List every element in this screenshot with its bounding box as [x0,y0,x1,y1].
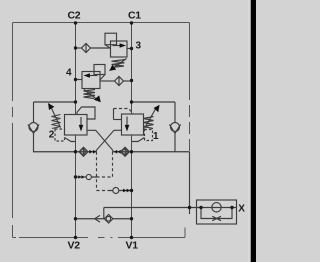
valve3 internal arrow [113,45,121,47]
wire left check branch horizontal [34,101,76,103]
row B seat triangles [78,175,81,179]
dashed pilot horizontal row B [97,176,113,178]
node C1/valve3 [130,47,133,50]
row A left pilot-check diamond [79,147,88,156]
valve4 spring [84,90,96,99]
svg-text:1: 1 [153,131,159,142]
frame right edge solid upper [189,23,191,89]
wire right check valve down [174,133,176,152]
X-port bypass orifice [212,216,221,220]
node C2 top [74,21,77,24]
svg-text:3: 3 [136,41,142,52]
node X-port box left [199,206,202,209]
node V2 bottom [74,236,77,239]
X-port box [197,200,237,224]
valve4 internal arrow [89,75,98,77]
valve1 spring [144,117,154,129]
row B orifice ball [86,174,91,179]
valve1 drain dashed box [145,130,153,141]
X-port plug ball [212,203,221,212]
svg-text:C2: C2 [68,10,81,22]
node X-port box right [230,206,233,209]
wire diamond to valve3 body [91,47,111,49]
pilot cross line left (valve2 to right junction) [87,130,113,151]
valve1 internal arrow [126,117,128,127]
node V1 bottom [130,236,133,239]
wire valve3 outlet to C1 [127,48,132,50]
wire left check valve down [34,133,76,152]
node C1 top [130,21,133,24]
valve3 adjust arrow [113,59,127,69]
counterbalance valve U1 body [122,114,144,135]
row A wire right [113,151,132,153]
valve2 adjust arrow [52,108,61,127]
valve3 pilot box [105,33,117,45]
X-port through wire [197,207,237,209]
row C orifice ball [113,188,119,194]
valve2 drain wire [65,138,76,142]
node V2/row D [74,217,77,220]
relief valve U3 body [111,41,128,57]
valve1 adjust arrow [145,108,157,129]
svg-text:X: X [238,204,245,215]
left check valve ball [29,123,38,132]
node boundary/X line [188,206,191,209]
valve1 pilot box [113,109,115,120]
stub below boundary node [189,208,191,215]
row D chevron seat [95,215,100,222]
row C wire [111,190,132,192]
wire diamond to C1 [124,80,132,82]
right check valve ball [171,123,180,132]
X pilot line horizontal [104,207,197,209]
row D wire [76,218,132,220]
wire right check branch horizontal [132,101,176,103]
row C seat triangles [123,189,126,193]
left check valve seat [28,124,39,133]
row B wire from V2 [76,176,97,178]
node V1/row D [130,217,133,220]
row A wire left [76,151,97,153]
valve1 drain wire [132,138,145,142]
svg-text:C1: C1 [128,10,141,22]
frame bottom-right hook [184,228,186,238]
counterbalance valve U2 body [65,115,88,136]
valve4 adjust arrow [84,90,97,100]
row A left seat triangles [89,150,92,154]
dashed pilot vertical left [96,152,98,191]
svg-text:2: 2 [49,129,55,140]
row A right seat triangles [114,150,117,154]
relief valve U4 body [82,72,100,89]
svg-text:V1: V1 [126,240,139,252]
valve2 drain dashed box [55,129,65,141]
frame top edge [13,22,190,24]
wire down to left check valve [33,102,35,123]
wire V1 vertical [131,135,133,238]
wire valve3 inlet from C2 [76,47,82,49]
row A wire to boundary [132,151,190,153]
frame bottom edge (with gaps) [13,237,186,239]
valve4 pilot box [94,65,105,75]
wire C2 vertical [75,23,77,115]
node V1/row C [130,189,133,192]
valve4 pilot box diagonal [100,75,105,81]
svg-text:V2: V2 [68,240,81,252]
black scan edge right [251,0,256,262]
frame left edge (with gaps) [12,23,14,238]
wire down to right check valve [174,102,176,123]
valve3 spring [111,60,126,68]
X pilot line drop [103,208,105,219]
valve2 internal arrow [80,117,82,126]
node V2/row B [74,175,77,178]
node C1/valve4 [130,79,133,82]
dashed pilot horizontal row C [97,190,111,192]
right check valve seat [169,124,180,133]
node V2/row A [74,150,77,153]
node C2/valve3 [74,46,77,49]
wire C2 to valve4 [76,79,83,81]
X-port bypass wire [201,208,232,219]
wire valve4 to diamond [100,80,115,82]
port labels [49,10,246,252]
pilot cross line right (valve1 to left junction) [96,130,121,151]
valve2 spring [52,115,61,129]
wire V2 vertical [75,135,77,238]
node C1/right check [130,100,133,103]
dashed pilot vertical right [112,152,114,177]
svg-text:4: 4 [66,68,72,79]
frame right edge dashed middle [189,88,191,152]
wire C1 vertical [131,23,133,115]
valve2 pilot box [77,107,95,119]
check diamond at valve3 inlet [82,44,91,53]
check diamond at valve4 outlet [115,77,124,86]
wire boundary right vertical lower [189,152,191,208]
row D pilot-check diamond [104,214,113,223]
node C2/valve4 [74,78,77,81]
node V1/row A [130,150,133,153]
node C2/left check [74,100,77,103]
row A right pilot-check diamond [121,147,130,156]
